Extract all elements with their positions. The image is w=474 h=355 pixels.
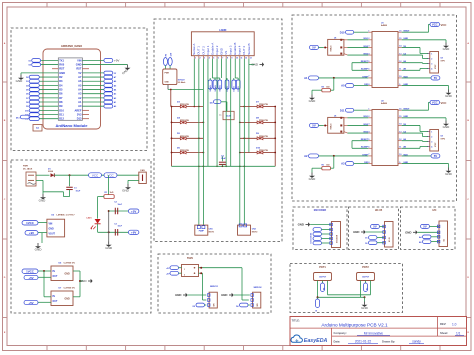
dip switch SW U1 (324, 38, 369, 56)
ground right of L293D (249, 59, 264, 67)
svg-text:VCC: VCC (432, 101, 438, 105)
svg-text:A7: A7 (78, 75, 82, 79)
svg-text:SW123: SW123 (331, 46, 333, 52)
svg-text:GND: GND (175, 293, 181, 297)
regulator U3 LM7805 (47, 215, 76, 237)
svg-text:D2: D2 (59, 75, 63, 79)
svg-text:A6: A6 (323, 288, 326, 290)
wire switch to servo2 (199, 267, 249, 300)
net flag +5V to U7 (24, 300, 51, 305)
net flag 5V vdd (402, 154, 440, 158)
svg-text:1: 1 (184, 269, 185, 271)
resistor R4 1k pulldown (309, 78, 334, 103)
ground GND left of arduino (16, 73, 59, 83)
L293D vertical wires (194, 59, 249, 168)
diode D1 SS34 (48, 169, 54, 178)
svg-text:8: 8 (227, 57, 228, 59)
svg-text:GND: GND (16, 79, 24, 83)
svg-text:1kΩ: 1kΩ (110, 192, 114, 194)
svg-text:Enable B: Enable B (233, 43, 237, 55)
arduino section dashed box (11, 28, 147, 151)
ground servo2 (221, 293, 250, 297)
potentiometer POT1 (314, 273, 332, 298)
svg-text:GND: GND (443, 47, 451, 51)
net flag 5V to switch (310, 123, 324, 127)
easyeda logo (291, 335, 328, 344)
svg-text:POT1: POT1 (319, 266, 326, 269)
svg-text:+5V: +5V (28, 276, 33, 280)
svg-text:D9: D9 (26, 106, 28, 108)
svg-text:GND: GND (220, 47, 224, 55)
svg-text:RST: RST (59, 67, 65, 71)
crystal Y1 under arduino (33, 125, 42, 132)
svg-text:GND: GND (35, 248, 43, 252)
L293D pin stubs (194, 56, 251, 60)
svg-text:GND: GND (49, 228, 54, 230)
ground pot (361, 297, 369, 310)
right row junctions (239, 106, 245, 154)
svg-text:A4: A4 (78, 87, 82, 91)
svg-text:OUT: OUT (53, 301, 58, 303)
L293D pin names (192, 43, 251, 55)
wire reset-sleep loop (352, 63, 368, 71)
svg-text:3: 3 (431, 141, 432, 143)
svg-text:A6: A6 (78, 79, 82, 83)
ground under fan (122, 180, 139, 192)
net flag 1VCC to U3 (22, 221, 47, 226)
connector P1 9V/12V input (163, 52, 186, 84)
svg-text:A3: A3 (341, 162, 345, 166)
svg-text:GND: GND (445, 172, 453, 176)
svg-text:PUMP: PUMP (199, 231, 205, 233)
svg-text:4: 4 (209, 56, 210, 59)
resistor R1 1k (104, 175, 114, 198)
hc-05 section dashed box (349, 207, 399, 250)
svg-text:A5: A5 (78, 83, 82, 87)
svg-text:HC-05: HC-05 (375, 209, 383, 212)
resistor R5 1k pulldown (309, 156, 334, 181)
svg-text:PR207W: PR207W (259, 104, 269, 106)
svg-text:D9: D9 (59, 104, 63, 108)
svg-text:A1: A1 (78, 100, 82, 104)
resistor network vertical right pair (225, 80, 240, 92)
svg-text:A7: A7 (366, 288, 369, 290)
wire LED to +9V rail (98, 224, 129, 234)
connector ENC1 (330, 222, 341, 248)
svg-text:12V: 12V (171, 52, 173, 56)
svg-text:5V: 5V (312, 124, 316, 128)
svg-text:GND: GND (105, 246, 113, 250)
svg-text:D0: D0 (365, 243, 367, 245)
svg-text:1: 1 (431, 53, 432, 55)
svg-text:5V: 5V (434, 76, 438, 80)
svg-text:1VCC: 1VCC (26, 221, 35, 225)
svg-text:7: 7 (222, 57, 223, 59)
capacitor C4 10uF (219, 155, 227, 167)
svg-text:GND: GND (353, 230, 359, 234)
net flag +9V (128, 230, 139, 234)
motor wires down (199, 59, 245, 226)
svg-text:A0: A0 (341, 84, 345, 88)
svg-text:PR207W: PR207W (259, 120, 269, 122)
svg-text:+5V: +5V (28, 301, 33, 305)
connector J1 PWR DC JACK (23, 166, 36, 187)
svg-text:A3: A3 (114, 93, 116, 96)
svg-text:RST: RST (76, 67, 82, 71)
svg-text:S10kΩ: S10kΩ (210, 85, 212, 92)
svg-text:S10kΩ: S10kΩ (220, 85, 222, 92)
svg-text:Sense B: Sense B (247, 43, 251, 54)
svg-text:STP1: STP1 (441, 61, 446, 63)
gnd rail vertical (105, 210, 113, 250)
svg-text:9V/12V: 9V/12V (178, 79, 185, 81)
svg-text:ws: ws (219, 115, 222, 117)
svg-text:Company:: Company: (334, 331, 347, 335)
ic U1 A4988 (361, 22, 410, 87)
svg-text:11: 11 (241, 57, 243, 59)
svg-text:D2 D3 D4 D5: D2 D3 D4 D5 (310, 233, 313, 244)
svg-text:1VCC: 1VCC (26, 270, 35, 274)
svg-text:A6: A6 (114, 80, 116, 83)
dip switch SW U2 (324, 116, 369, 134)
wire switch to servo1 (199, 272, 207, 300)
net flag 5V vdd (402, 76, 440, 80)
svg-text:VIN: VIN (77, 58, 81, 62)
wire TX1/RX0 pills (29, 59, 59, 67)
svg-text:GND: GND (59, 71, 65, 75)
pot section dashed box (290, 264, 403, 313)
svg-text:ENCODER: ENCODER (337, 234, 339, 243)
svg-text:A2: A2 (304, 154, 308, 158)
servo section dashed box (158, 254, 271, 313)
svg-text:D9: D9 (193, 306, 195, 308)
ic U4 L293D (191, 29, 254, 56)
svg-text:A1: A1 (304, 76, 308, 80)
svg-text:REV:: REV: (440, 322, 446, 326)
net flag +9V to U3 (25, 231, 47, 236)
horizontal bus y166 (172, 166, 276, 168)
svg-text:GND: GND (165, 82, 170, 84)
ground i2c (405, 230, 439, 234)
svg-text:2021-01-22: 2021-01-22 (355, 340, 372, 344)
svg-text:GND: GND (445, 94, 453, 98)
svg-text:LED1: LED1 (87, 217, 93, 219)
svg-text:Date:: Date: (334, 339, 341, 343)
svg-text:1: 1 (195, 57, 196, 59)
net flags A4 A5 i2c (419, 235, 439, 244)
svg-text:OUT: OUT (53, 276, 58, 278)
wire pot bus (317, 281, 371, 299)
svg-text:6: 6 (218, 57, 219, 59)
svg-text:1kΩ: 1kΩ (326, 86, 330, 88)
svg-text:D3: D3 (26, 81, 28, 83)
svg-text:IN: IN (53, 271, 56, 273)
capacitor C1 10uF (43, 175, 81, 196)
resistor network vertical (208, 80, 221, 92)
svg-text:3: 3 (431, 63, 432, 65)
svg-text:sandy: sandy (412, 340, 421, 344)
svg-text:5V9V: 5V9V (187, 257, 193, 260)
servo SERVO2 (251, 287, 263, 308)
svg-text:ArdNano Module: ArdNano Module (56, 123, 89, 128)
svg-text:TITLE:: TITLE: (292, 318, 300, 322)
switch SW2 5V9V select (182, 265, 199, 277)
svg-text:D6: D6 (236, 306, 238, 308)
net flag D11 step pin1 (340, 108, 368, 112)
net flag A7 pot2 (364, 283, 369, 292)
svg-text:D1: D1 (365, 238, 367, 240)
connector CN1 MOT1 (195, 225, 215, 235)
svg-text:A0: A0 (114, 105, 116, 108)
svg-text:Enable A: Enable A (210, 43, 214, 55)
wire R1 to LED (98, 197, 104, 219)
svg-text:A1: A1 (114, 101, 116, 104)
svg-text:D8: D8 (26, 102, 28, 104)
svg-text:D6: D6 (26, 94, 28, 96)
ground U3 (35, 233, 43, 252)
regulator U5 CJ7809 (51, 263, 75, 281)
svg-text:D13: D13 (77, 117, 82, 121)
svg-text:GND: GND (251, 63, 259, 67)
encoder pin flags (310, 228, 332, 245)
svg-text:A2: A2 (78, 96, 82, 100)
svg-text:2: 2 (431, 58, 432, 60)
svg-text:FAN: FAN (140, 169, 145, 172)
svg-text:MOT1: MOT1 (209, 231, 215, 233)
servo SERVO1 (207, 286, 219, 308)
svg-text:VCC: VCC (441, 101, 447, 105)
svg-text:D4: D4 (59, 83, 63, 87)
svg-text:VCC: VCC (441, 23, 447, 27)
wire AREF/3V3/D13 stubs right (82, 110, 89, 118)
svg-text:Input 4: Input 4 (238, 45, 242, 55)
left row junctions (198, 106, 204, 154)
svg-text:VOUT: VOUT (49, 233, 56, 235)
svg-text:+5V: +5V (131, 209, 136, 213)
ground hc05 (353, 230, 384, 234)
wire diode to fan with junctions (54, 174, 139, 176)
svg-text:D2: D2 (26, 77, 28, 79)
svg-text:MOT2: MOT2 (252, 231, 258, 233)
ground GND right of arduino (82, 65, 130, 76)
svg-text:3: 3 (204, 57, 205, 59)
svg-text:PR207W: PR207W (259, 136, 269, 138)
svg-text:L293D: L293D (219, 29, 226, 32)
svg-text:+9V: +9V (29, 231, 34, 235)
svg-text:1/1: 1/1 (456, 331, 461, 335)
svg-text:5V: 5V (423, 225, 427, 229)
ground servo1 (175, 293, 206, 297)
svg-text:Sheet:: Sheet: (440, 331, 448, 335)
connector FAN (139, 169, 147, 184)
svg-text:Input 3: Input 3 (229, 45, 233, 55)
net flags +5V +9V servo (166, 266, 181, 276)
svg-text:SERVO1: SERVO1 (210, 286, 219, 288)
connector BT1 hc05 (383, 222, 393, 248)
net flag +5V (128, 209, 139, 213)
wire 1VCC down to U7 (43, 271, 45, 297)
svg-text:10uF: 10uF (221, 158, 226, 160)
wires 5V/A7-A0 pills right (82, 71, 117, 108)
svg-text:PR207W: PR207W (259, 150, 269, 152)
svg-text:5L2: 5L2 (36, 128, 39, 130)
wire jack to diode (36, 174, 50, 176)
svg-text:GND: GND (80, 279, 88, 283)
svg-text:IN: IN (53, 296, 56, 298)
svg-text:GND: GND (298, 223, 304, 227)
ground pin15 (402, 118, 450, 129)
net flag VCC vmot (402, 22, 447, 32)
svg-text:GND: GND (122, 188, 130, 192)
svg-text:OUT 4: OUT 4 (242, 46, 246, 55)
svg-text:EasyEDA: EasyEDA (304, 338, 328, 344)
ground encoder (298, 222, 332, 226)
net flag A3 to DIR (341, 162, 368, 166)
net flag A0 to DIR (341, 84, 368, 88)
svg-text:R4: R4 (322, 85, 324, 88)
svg-text:VIN: VIN (49, 223, 53, 225)
svg-text:10k POT: 10k POT (319, 277, 327, 279)
svg-text:ENCODER: ENCODER (314, 209, 327, 212)
net flag 5V hc05 (371, 225, 385, 229)
svg-text:GND: GND (443, 125, 451, 129)
svg-text:A4988: A4988 (381, 102, 388, 105)
svg-text:CJ7809 3%: CJ7809 3% (64, 263, 75, 265)
svg-text:D12: D12 (59, 117, 64, 121)
svg-text:OUT 1: OUT 1 (197, 46, 201, 55)
svg-text:S10kΩ: S10kΩ (215, 85, 217, 92)
svg-text:GND: GND (221, 293, 227, 297)
svg-text:5: 5 (213, 57, 214, 59)
svg-text:Mr Innovative: Mr Innovative (364, 331, 383, 335)
svg-text:TX1: TX1 (59, 58, 64, 62)
svg-text:ARDUINO_NANO: ARDUINO_NANO (61, 44, 82, 48)
svg-text:A3: A3 (78, 92, 82, 96)
net flag 5V i2c (421, 224, 440, 228)
svg-text:HC-05: HC-05 (389, 237, 391, 242)
svg-text:+9V: +9V (131, 231, 136, 235)
svg-text:GND: GND (405, 230, 411, 234)
net flag D10 step pin1 (340, 30, 369, 34)
svg-text:A0: A0 (78, 104, 82, 108)
net flag A1 to STEP (304, 76, 368, 80)
svg-text:Arduino Multipurpose PCB V2.1: Arduino Multipurpose PCB V2.1 (321, 323, 388, 328)
svg-text:1: 1 (431, 131, 432, 133)
svg-text:13: 13 (250, 57, 252, 59)
svg-text:RX0: RX0 (59, 62, 65, 66)
svg-text:2: 2 (200, 57, 201, 59)
svg-text:I2C: I2C (433, 209, 437, 212)
wire reset-sleep loop (352, 141, 368, 149)
net flags D0 D1 hc05 (365, 236, 384, 245)
net flag A2 to STEP (304, 154, 368, 158)
svg-text:SW123: SW123 (331, 124, 333, 130)
net flag A6 pot1 (321, 283, 326, 292)
svg-text:A4988: A4988 (381, 24, 388, 27)
ic U2 A4988 (361, 100, 410, 165)
svg-text:GND: GND (309, 177, 317, 181)
capacitor C2 10uF (109, 202, 129, 215)
svg-text:9: 9 (231, 57, 232, 59)
svg-text:VS: VS (224, 51, 228, 55)
svg-text:5V: 5V (312, 46, 316, 50)
svg-text:D5: D5 (26, 90, 28, 92)
svg-text:D5: D5 (59, 87, 63, 91)
svg-text:OUT 2: OUT 2 (201, 46, 205, 55)
buzzer BZ1 (219, 102, 234, 120)
svg-text:10uF: 10uF (76, 190, 81, 192)
svg-text:PWR: PWR (165, 73, 170, 75)
svg-text:D7: D7 (26, 98, 28, 100)
svg-text:STP2: STP2 (441, 139, 446, 141)
diode rows left (D3 D4 D5 D6 PR207W) (171, 101, 204, 166)
wire RST stub right (82, 68, 89, 70)
svg-text:GND: GND (76, 62, 82, 66)
pill D13 bottom left (16, 115, 29, 119)
svg-text:D6: D6 (59, 92, 63, 96)
capacitor C3 10uF (114, 223, 123, 235)
svg-text:1.0: 1.0 (452, 322, 457, 326)
arduino module U0 ARDUINO_NANO (43, 44, 101, 129)
svg-text:SERVO2: SERVO2 (253, 287, 262, 289)
svg-text:D7: D7 (59, 96, 63, 100)
svg-text:AREF: AREF (74, 108, 81, 112)
svg-text:A2: A2 (114, 97, 116, 100)
svg-text:GND: GND (65, 274, 70, 276)
net flag D6 servo2 (236, 303, 250, 308)
svg-text:CJ7809 3%: CJ7809 3% (64, 288, 75, 290)
svg-text:+9V: +9V (114, 59, 119, 63)
stepper section dashed box (292, 15, 457, 201)
ground pin9 (402, 164, 453, 176)
svg-text:GND: GND (309, 99, 317, 103)
svg-text:D10: D10 (340, 30, 345, 34)
encoder section dashed box (293, 207, 347, 250)
wire 9V12V block to bus (168, 85, 203, 107)
svg-text:U8: U8 (441, 136, 443, 138)
svg-text:D1N1: D1N1 (227, 85, 229, 91)
wire +5V right (82, 59, 119, 63)
net flag VCC pair (89, 173, 118, 178)
ground pin15 (402, 40, 450, 51)
net flag D9 servo1 (193, 303, 207, 308)
net flag +5V to U5 (24, 275, 51, 280)
net flag D4 (210, 100, 227, 105)
svg-text:R5: R5 (322, 164, 324, 166)
svg-text:1kΩ: 1kΩ (326, 164, 330, 166)
connector STP1 (402, 47, 445, 73)
ground pin9 (402, 86, 453, 98)
svg-text:D1: D1 (29, 60, 31, 62)
LED1 (87, 217, 101, 229)
svg-text:10k POT: 10k POT (362, 277, 370, 279)
svg-text:GND: GND (39, 198, 47, 202)
svg-text:Sense A: Sense A (192, 44, 196, 55)
svg-text:Input 1: Input 1 (206, 45, 210, 55)
svg-text:Input 2: Input 2 (215, 45, 219, 55)
connector CN2 MOT2 (238, 224, 259, 235)
svg-text:10: 10 (236, 57, 238, 59)
net flag VCC vmot (402, 100, 447, 110)
potentiometer POT2 (357, 273, 375, 298)
title block (290, 317, 467, 346)
net flag B pot (316, 297, 320, 312)
svg-text:D11: D11 (59, 112, 64, 116)
svg-text:3V3: 3V3 (77, 112, 82, 116)
net flag 1VCC to U5 (22, 269, 51, 274)
svg-text:D1N1: D1N1 (234, 85, 236, 91)
svg-text:D10: D10 (25, 110, 28, 112)
